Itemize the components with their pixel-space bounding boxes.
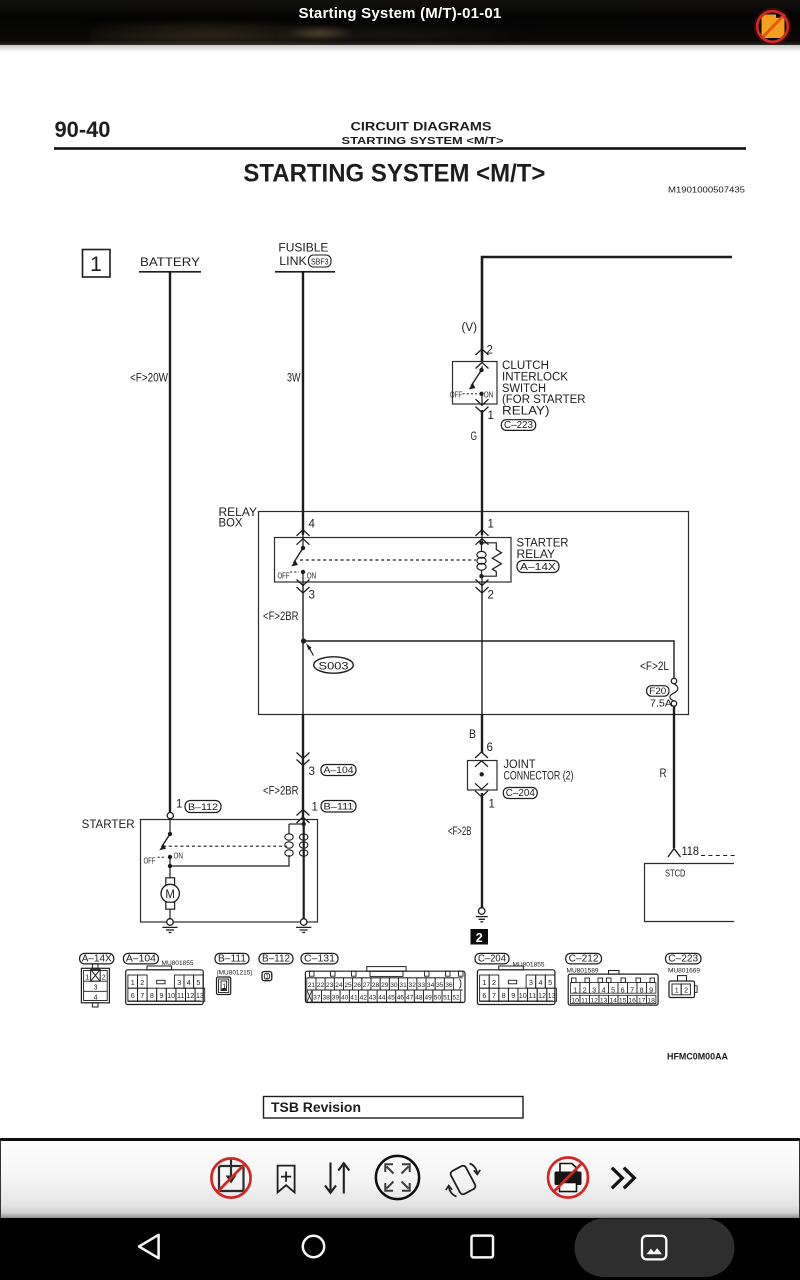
svg-text:TSB Revision: TSB Revision (271, 1100, 361, 1115)
svg-text:10: 10 (519, 991, 527, 1000)
svg-text:29: 29 (381, 982, 389, 989)
fuse F20 7.5A (670, 678, 678, 706)
svg-text:35: 35 (436, 982, 444, 989)
svg-text:24: 24 (335, 982, 343, 989)
svg-text:2: 2 (140, 978, 144, 987)
svg-text:10: 10 (167, 991, 175, 1000)
svg-text:5: 5 (548, 978, 552, 987)
svg-text:1: 1 (90, 253, 102, 276)
svg-text:12: 12 (186, 991, 194, 1000)
wire joint connector to ground (481, 793, 483, 908)
connector drawing A-14X (81, 964, 109, 1007)
svg-text:F20: F20 (649, 686, 666, 697)
svg-text:17: 17 (638, 998, 646, 1005)
svg-text:3: 3 (309, 766, 315, 778)
svg-text:1: 1 (489, 799, 495, 811)
nav icon: recents (472, 1236, 494, 1258)
connector ref C-204 (503, 788, 537, 799)
svg-text:STARTER: STARTER (82, 819, 135, 831)
svg-text:B–111: B–111 (324, 802, 354, 813)
connector drawing C-212 (568, 971, 658, 1006)
svg-text:6: 6 (621, 985, 625, 994)
svg-text:FUSIBLE: FUSIBLE (278, 243, 328, 255)
svg-text:OFF: OFF (278, 572, 290, 581)
svg-text:1: 1 (176, 799, 182, 811)
svg-text:1: 1 (488, 410, 494, 422)
svg-text:37: 37 (313, 994, 321, 1001)
svg-text:28: 28 (372, 982, 380, 989)
svg-text:4: 4 (187, 978, 191, 987)
starter motor M (161, 866, 179, 919)
svg-text:7.5A: 7.5A (650, 698, 672, 710)
clutch switch pin 1 (476, 399, 489, 405)
joint connector box C-204 (468, 761, 498, 791)
svg-text:18: 18 (647, 998, 655, 1005)
svg-text:BOX: BOX (219, 518, 243, 530)
svg-text:11: 11 (581, 998, 588, 1005)
svg-text:C–204: C–204 (478, 953, 506, 965)
svg-text:(FOR STARTER: (FOR STARTER (502, 394, 586, 406)
splice junction S003 (301, 638, 306, 643)
connector drawing B-112 (262, 972, 272, 981)
svg-text:44: 44 (378, 994, 386, 1001)
svg-text:7: 7 (140, 991, 144, 1000)
svg-text:9: 9 (649, 985, 653, 994)
svg-text:CONNECTOR (2): CONNECTOR (2) (504, 770, 574, 782)
svg-text:BATTERY: BATTERY (140, 257, 200, 269)
svg-text:16: 16 (628, 998, 636, 1005)
svg-text:1: 1 (482, 978, 486, 987)
svg-text:46: 46 (397, 994, 405, 1001)
connector ref label C-204 (legend) (475, 953, 509, 964)
svg-text:ON: ON (174, 852, 184, 861)
svg-text:CIRCUIT DIAGRAMS: CIRCUIT DIAGRAMS (351, 120, 492, 134)
svg-text:STARTING SYSTEM <M/T>: STARTING SYSTEM <M/T> (342, 135, 504, 147)
starter relay resistor (482, 543, 502, 576)
svg-text:3: 3 (529, 978, 533, 987)
S003 label (306, 643, 353, 673)
svg-text:2: 2 (583, 985, 587, 994)
ground (joint connector) (476, 908, 488, 922)
svg-text:11: 11 (177, 991, 184, 1000)
ECM box (clipped at page edge) (645, 856, 736, 922)
svg-text:B–112: B–112 (262, 953, 290, 965)
svg-text:STARTER: STARTER (517, 538, 569, 550)
app bar title (0, 5, 800, 22)
svg-text:49: 49 (425, 994, 433, 1001)
svg-text:1: 1 (573, 985, 577, 994)
svg-text:LINK: LINK (279, 256, 307, 268)
svg-text:51: 51 (443, 994, 451, 1001)
svg-text:118: 118 (682, 846, 700, 858)
svg-text:SBF3: SBF3 (311, 257, 329, 266)
svg-text:23: 23 (326, 982, 334, 989)
toolbar icon: print (disabled) (548, 1158, 588, 1198)
fuse ref F20 (647, 686, 669, 697)
svg-text:21: 21 (308, 982, 316, 989)
svg-text:10: 10 (571, 998, 579, 1005)
starter box outline (141, 820, 318, 923)
svg-text:A–104: A–104 (324, 765, 354, 776)
svg-text:52: 52 (452, 994, 460, 1001)
wire battery to starter B-112 (169, 272, 171, 812)
svg-text:ON: ON (484, 390, 494, 399)
joint connector pin 1 (475, 783, 488, 789)
svg-text:14: 14 (609, 998, 617, 1005)
svg-text:MU801589: MU801589 (567, 968, 599, 975)
svg-text:(V): (V) (462, 322, 478, 334)
battery label (139, 257, 201, 272)
svg-text:R: R (660, 768, 667, 780)
starter relay pin 3 (297, 580, 310, 586)
nav icon: home (303, 1236, 324, 1257)
svg-text:36: 36 (445, 982, 453, 989)
clutch interlock switch box C-223 (450, 362, 497, 405)
starter relay label (517, 538, 569, 561)
toolbar icon: fit to screen (active) (376, 1156, 419, 1199)
svg-text:A–104: A–104 (126, 953, 156, 965)
svg-text:2: 2 (476, 931, 483, 945)
svg-text:9: 9 (511, 991, 515, 1000)
svg-text:1: 1 (265, 975, 269, 981)
bottom toolbar (0, 1138, 800, 1218)
svg-text:15: 15 (619, 998, 627, 1005)
svg-text:C–223: C–223 (504, 420, 533, 431)
svg-text:43: 43 (369, 994, 377, 1001)
main feed wire (top right) (482, 257, 732, 361)
svg-text:13: 13 (548, 991, 556, 1000)
svg-text:STARTING SYSTEM <M/T>: STARTING SYSTEM <M/T> (243, 160, 545, 188)
starter relay coil (477, 535, 486, 578)
connector A-104 on wire (297, 753, 310, 759)
svg-text:3: 3 (94, 985, 98, 992)
toolbar icon: more (612, 1168, 635, 1189)
svg-text:5: 5 (196, 978, 200, 987)
joint connector name (504, 759, 574, 782)
connector ref label A-14X (legend) (80, 953, 114, 964)
svg-text:13: 13 (196, 991, 204, 1000)
svg-text:1: 1 (131, 978, 135, 987)
connector B-112 terminal circle (167, 813, 173, 819)
nav icon: image button (642, 1236, 666, 1260)
svg-text:8: 8 (502, 991, 506, 1000)
svg-text:B–111: B–111 (218, 953, 246, 965)
wire splice branch to fuse F20 (304, 641, 674, 678)
svg-text:4: 4 (309, 519, 316, 531)
svg-text:9: 9 (160, 991, 164, 1000)
svg-text:22: 22 (317, 982, 325, 989)
wire relay pin3 down (302, 583, 304, 715)
svg-text:C–204: C–204 (506, 788, 535, 799)
header rule (54, 147, 746, 150)
svg-text:1: 1 (488, 519, 494, 531)
svg-text:26: 26 (354, 982, 362, 989)
app top bar (0, 0, 800, 45)
toolbar icon: rotate screen (446, 1164, 480, 1197)
diagram marker 2 (471, 929, 489, 945)
connector ref C-223 (501, 420, 535, 431)
starter relay inner box A-14X (275, 538, 512, 583)
svg-text:7: 7 (492, 991, 496, 1000)
svg-text:30: 30 (390, 982, 398, 989)
relay box outline (259, 512, 689, 715)
svg-text:HFMC0M00AA: HFMC0M00AA (667, 1052, 728, 1063)
ground (starter motor) (162, 919, 177, 933)
svg-text:3: 3 (309, 590, 315, 602)
svg-text:(MU801215): (MU801215) (217, 970, 253, 977)
toolbar icon: annotate (disabled) (211, 1158, 250, 1197)
connector ref label C-212 (legend) (566, 953, 602, 964)
svg-text:RELAY): RELAY) (502, 406, 550, 418)
wire relay pin2 down (crosses S003 branch) (481, 583, 483, 715)
svg-text:33: 33 (418, 982, 426, 989)
svg-text:7: 7 (630, 985, 634, 994)
nav icon: back (139, 1235, 159, 1258)
starter hold-in coil on main wire (300, 834, 308, 856)
svg-text:4: 4 (602, 985, 606, 994)
svg-text:A–14X: A–14X (82, 953, 112, 965)
svg-text:25: 25 (344, 982, 352, 989)
connector ref A-14X (517, 561, 559, 573)
svg-text:B: B (469, 729, 476, 741)
svg-text:3W: 3W (287, 373, 301, 385)
svg-text:<F>2B: <F>2B (448, 826, 472, 838)
toolbar icon: page up/down (325, 1163, 349, 1194)
disabled folder icon (748, 0, 796, 45)
svg-text:1: 1 (85, 974, 89, 981)
svg-text:1: 1 (312, 802, 318, 814)
TSB Revision box (264, 1097, 524, 1119)
svg-text:CLUTCH: CLUTCH (502, 360, 549, 372)
svg-text:MU801855: MU801855 (513, 962, 545, 969)
connector ref label B-111 (legend) (215, 953, 249, 964)
svg-text:2: 2 (102, 974, 106, 981)
svg-text:ON: ON (307, 572, 317, 581)
svg-text:MU801669: MU801669 (668, 968, 700, 975)
svg-text:C–212: C–212 (569, 953, 599, 965)
clutch switch name text (502, 360, 586, 418)
connector drawing C-131 (305, 967, 465, 1003)
fusible link label SBF3 (275, 243, 335, 272)
starter relay switch (278, 535, 317, 583)
connector drawing A-104 (126, 966, 205, 1005)
svg-text:2: 2 (684, 985, 688, 994)
starter mech link dashed (163, 845, 287, 847)
svg-text:G: G (471, 431, 478, 443)
svg-text:2: 2 (488, 590, 494, 602)
wire G clutch switch to relay pin 1 (481, 410, 483, 535)
svg-text:38: 38 (322, 994, 330, 1001)
svg-text:6: 6 (482, 991, 486, 1000)
connector drawing C-223 (669, 976, 697, 998)
ECM pin 118 (668, 846, 699, 858)
svg-text:8: 8 (640, 985, 644, 994)
svg-text:41: 41 (350, 994, 358, 1001)
starter magnetic switch (144, 819, 184, 866)
svg-text:C–223: C–223 (668, 953, 698, 965)
relay box label (219, 507, 258, 530)
svg-text:45: 45 (387, 994, 395, 1001)
svg-text:6: 6 (487, 742, 493, 754)
svg-text:4: 4 (539, 978, 543, 987)
svg-text:SWITCH: SWITCH (502, 383, 546, 395)
svg-text:<F>2BR: <F>2BR (263, 611, 299, 623)
wire F2BR relay box to starter (302, 715, 304, 819)
wire fusible link to relay pin 4 (302, 272, 304, 535)
svg-text:OFF: OFF (450, 390, 462, 399)
svg-text:31: 31 (399, 982, 407, 989)
svg-text:27: 27 (363, 982, 371, 989)
connector drawing C-204 (477, 966, 556, 1005)
wire R fuse to ECM pin 118 (673, 706, 675, 848)
svg-text:40: 40 (341, 994, 349, 1001)
connector ref label B-112 (legend) (259, 953, 293, 964)
svg-text:42: 42 (360, 994, 368, 1001)
wire starter right side to ground (303, 819, 305, 919)
svg-text:2: 2 (492, 978, 496, 987)
svg-text:RELAY: RELAY (517, 549, 556, 561)
svg-text:34: 34 (427, 982, 435, 989)
svg-text:13: 13 (600, 998, 608, 1005)
wire B relay to joint connector (481, 715, 483, 753)
nav pill (app switcher) (575, 1219, 735, 1278)
svg-text:4: 4 (94, 995, 98, 1002)
ground (starter solenoid) (296, 919, 311, 933)
svg-text:8: 8 (150, 991, 154, 1000)
connector ref label A-104 (legend) (123, 953, 158, 964)
svg-text:INTERLOCK: INTERLOCK (502, 371, 568, 383)
svg-text:1: 1 (675, 985, 679, 994)
connector B-111 chevrons (297, 810, 310, 816)
toolbar icon: bookmark add (278, 1166, 295, 1193)
svg-text:50: 50 (434, 994, 442, 1001)
svg-text:C–131: C–131 (304, 953, 335, 965)
svg-text:<F>20W: <F>20W (130, 373, 168, 385)
svg-text:S003: S003 (319, 660, 349, 672)
starter coil branch (168, 822, 306, 868)
svg-text:39: 39 (332, 994, 340, 1001)
svg-text:12: 12 (538, 991, 546, 1000)
starter relay pin 2 (476, 580, 489, 586)
svg-text:48: 48 (415, 994, 423, 1001)
svg-text:3: 3 (592, 985, 596, 994)
svg-text:M: M (165, 889, 175, 901)
android navigation bar (0, 1218, 800, 1280)
svg-text:12: 12 (590, 998, 598, 1005)
svg-text:3: 3 (177, 978, 181, 987)
svg-text:OFF: OFF (144, 857, 156, 866)
svg-text:<F>2BR: <F>2BR (263, 786, 299, 798)
svg-text:STCD: STCD (665, 868, 686, 880)
svg-text:6: 6 (131, 991, 135, 1000)
svg-text:90-40: 90-40 (55, 117, 111, 142)
svg-text:JOINT: JOINT (504, 759, 536, 771)
svg-text:A–14X: A–14X (520, 562, 556, 573)
svg-text:M1901000507435: M1901000507435 (668, 185, 745, 195)
svg-text:11: 11 (529, 991, 536, 1000)
diagram marker 1 (83, 250, 111, 278)
connector ref label C-223 (legend) (666, 953, 702, 964)
svg-text:32: 32 (409, 982, 417, 989)
svg-text:5: 5 (611, 985, 615, 994)
relay mechanical link (dashed) (300, 559, 476, 561)
svg-text:B–112: B–112 (188, 802, 218, 813)
connector drawing B-111 (217, 977, 231, 995)
svg-text:<F>2L: <F>2L (640, 661, 670, 673)
connector ref label C-131 (legend) (301, 953, 338, 964)
svg-text:47: 47 (406, 994, 414, 1001)
